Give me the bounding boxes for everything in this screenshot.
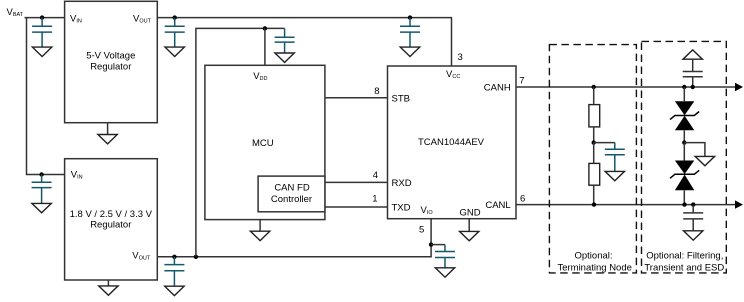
TCAN1044AEV block <box>388 66 517 219</box>
ground (below 5V regulator) <box>98 123 117 144</box>
capacitor C2 (5V rail bypass) <box>165 18 185 47</box>
wire mid node to TVS2 <box>683 143 685 161</box>
svg-text:6: 6 <box>520 193 525 204</box>
wire VBAT down to lower regulator VIN <box>27 18 65 175</box>
svg-text:Controller: Controller <box>271 194 312 205</box>
node junction dot split cap <box>592 140 596 144</box>
capacitor C3 (VCC bypass) <box>400 18 420 47</box>
ground (below C3) <box>400 47 419 56</box>
svg-text:CANH: CANH <box>484 83 511 94</box>
svg-text:Terminating Node: Terminating Node <box>557 263 631 274</box>
node junction dot on VBAT wire <box>40 15 44 19</box>
svg-text:4: 4 <box>373 170 378 181</box>
wire R2 to CANL <box>593 185 595 204</box>
wire R1 to node <box>593 127 595 143</box>
wire VBAT to 5V regulator VIN <box>25 17 65 19</box>
svg-text:7: 7 <box>519 76 524 87</box>
capacitor C6 (VDD bypass) <box>275 28 295 53</box>
wire VDD riser to MCU <box>196 28 285 256</box>
wire STB (pin 8) <box>325 97 388 99</box>
svg-text:TCAN1044AEV: TCAN1044AEV <box>418 137 485 148</box>
svg-text:Regulator: Regulator <box>90 61 131 72</box>
TVS diode D1 (bidirectional) <box>675 101 694 130</box>
ground (below C7) <box>435 268 454 277</box>
node junction dot rail at C2 <box>173 15 177 19</box>
wire CANH (pin 7) <box>516 86 736 88</box>
wire CANH to TVS1 <box>683 87 685 101</box>
svg-text:MCU: MCU <box>252 138 274 149</box>
ground (TVS mid) <box>695 156 714 165</box>
wire VDD drop into MCU <box>264 28 266 65</box>
resistor R1 <box>589 105 600 127</box>
node junction dot TVS on CANL <box>682 202 686 206</box>
resistor R2 <box>589 163 600 185</box>
dashed box: Optional Terminating Node <box>549 45 636 273</box>
svg-text:Transient and ESD: Transient and ESD <box>644 263 724 274</box>
svg-text:3: 3 <box>458 52 463 63</box>
wire CANL (pin 6) <box>516 204 736 206</box>
ground (below C1) <box>32 47 51 56</box>
1.8/2.5/3.3 V Regulator block <box>65 159 158 280</box>
ground (TCAN GND pin) <box>460 219 479 241</box>
node junction dot C9 on CANH <box>691 85 695 89</box>
TVS diode D2 (bidirectional) <box>675 161 694 191</box>
wire CANH dot to R1 <box>593 87 595 105</box>
ground (below lower regulator) <box>99 280 118 295</box>
ground (below C8) <box>605 171 624 180</box>
ground (below C6) <box>275 53 294 62</box>
ground (below C2) <box>165 47 184 56</box>
capacitor C1 (VBAT bypass) <box>32 18 52 47</box>
svg-text:TXD: TXD <box>392 203 411 214</box>
dashed box: Optional Filtering Transient and ESD <box>642 41 727 273</box>
5-V Voltage Regulator block <box>65 1 158 122</box>
wire TVS2 to CANL <box>683 190 685 204</box>
ground (below MCU) <box>250 220 269 241</box>
capacitor C5 (lower VOUT bypass) <box>164 257 184 286</box>
svg-text:Regulator: Regulator <box>90 220 131 231</box>
ground (below C5) <box>165 286 184 295</box>
svg-text:CAN FD: CAN FD <box>274 182 310 193</box>
node junction dot VDD drop <box>263 26 267 30</box>
svg-text:CANL: CANL <box>485 200 510 211</box>
capacitor C10 (CANL filter) <box>683 205 703 231</box>
svg-text:STB: STB <box>392 93 410 104</box>
svg-text:RXD: RXD <box>392 178 412 189</box>
svg-text:GND: GND <box>459 208 480 219</box>
node junction dot TVS on CANH <box>682 85 686 89</box>
svg-text:Optional:: Optional: <box>574 251 612 262</box>
node junction dot VOUT at C5 <box>172 255 176 259</box>
ground (below C10) <box>684 231 703 240</box>
wire TXD (pin 1) <box>325 206 388 208</box>
svg-text:1.8 V / 2.5 V / 3.3 V: 1.8 V / 2.5 V / 3.3 V <box>70 209 153 220</box>
node junction dot mid TVS <box>682 140 686 144</box>
MCU block <box>205 65 325 219</box>
node junction dot VOUT to VDD riser <box>194 255 198 259</box>
wire lower VOUT to TCAN VIO <box>157 219 431 257</box>
wire 5V VOUT rail to TCAN VCC <box>157 18 451 66</box>
wire TVS1 to mid node <box>683 130 685 142</box>
flipped ground (top of filter cap) <box>683 50 702 59</box>
arrowhead CANL bus <box>735 200 743 208</box>
wire VIO drop and junction <box>429 242 433 246</box>
svg-text:Optional: Filtering,: Optional: Filtering, <box>646 251 723 262</box>
svg-text:1: 1 <box>372 193 377 204</box>
ground (below C4) <box>32 203 51 212</box>
capacitor C9 (CANH filter) <box>683 59 703 87</box>
node junction dot CANL term <box>592 202 596 206</box>
CAN FD Controller block <box>258 176 325 212</box>
node junction dot C10 on CANL <box>691 202 695 206</box>
arrowhead CANH bus <box>735 83 743 91</box>
wire node to R2 <box>593 143 595 164</box>
capacitor C8 (split termination) <box>594 142 615 144</box>
svg-text:5-V Voltage: 5-V Voltage <box>86 51 135 62</box>
node junction dot rail at C3 <box>408 15 412 19</box>
capacitor C7 (VIO bypass) <box>431 244 445 246</box>
wire RXD (pin 4) <box>325 181 388 183</box>
svg-text:8: 8 <box>374 86 379 97</box>
node junction dot CANH term <box>592 85 596 89</box>
svg-text:5: 5 <box>419 224 424 235</box>
capacitor C4 (lower VIN bypass) <box>32 175 52 204</box>
node junction dot lower VIN <box>39 172 43 176</box>
wire mid node to ground <box>684 143 705 157</box>
